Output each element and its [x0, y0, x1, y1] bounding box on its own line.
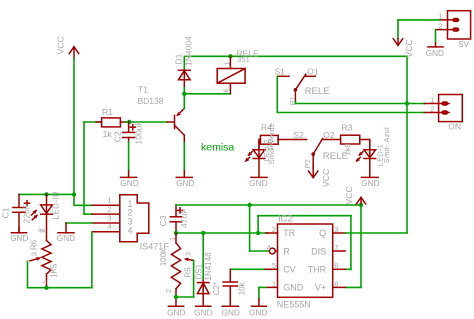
svg-text:GND: GND [249, 178, 267, 188]
svg-text:P2: P2 [303, 159, 312, 168]
svg-text:R3: R3 [342, 122, 353, 132]
svg-text:1: 1 [272, 279, 276, 288]
svg-text:GND: GND [221, 307, 239, 317]
svg-text:R6: R6 [29, 239, 38, 250]
svg-text:1: 1 [107, 196, 111, 205]
svg-text:GND: GND [361, 178, 379, 188]
svg-text:O1: O1 [307, 67, 319, 77]
svg-text:1: 1 [430, 95, 434, 104]
svg-text:GND: GND [283, 283, 304, 293]
svg-text:VCC: VCC [344, 186, 354, 204]
svg-text:1: 1 [41, 280, 50, 284]
svg-text:O2: O2 [323, 130, 335, 140]
svg-text:BD138: BD138 [138, 96, 164, 106]
svg-text:6: 6 [334, 261, 338, 270]
svg-text:5V: 5V [459, 39, 470, 49]
svg-text:ON: ON [448, 122, 461, 132]
svg-text:LED-IR: LED-IR [51, 191, 60, 220]
svg-text:5: 5 [272, 261, 276, 270]
svg-text:4: 4 [267, 243, 271, 252]
svg-text:GND: GND [426, 48, 444, 58]
svg-text:GND: GND [167, 307, 185, 317]
svg-text:VCC: VCC [404, 39, 414, 57]
svg-text:22uF: 22uF [21, 204, 31, 223]
svg-text:GND: GND [176, 178, 194, 188]
svg-text:1: 1 [168, 237, 177, 241]
svg-text:Smd- Verde: Smd- Verde [267, 123, 276, 165]
svg-text:GND: GND [57, 233, 75, 243]
svg-text:3: 3 [107, 213, 111, 222]
svg-text:V+: V+ [315, 283, 326, 293]
svg-text:D1: D1 [173, 53, 183, 64]
svg-text:GND: GND [120, 178, 138, 188]
svg-text:2: 2 [164, 289, 173, 293]
svg-text:100k: 100k [159, 248, 168, 266]
svg-text:TR: TR [283, 228, 295, 238]
svg-text:6: 6 [221, 88, 230, 92]
svg-text:2: 2 [107, 204, 111, 213]
svg-text:VCC: VCC [321, 169, 331, 187]
svg-text:2: 2 [37, 228, 46, 232]
svg-text:351: 351 [237, 55, 250, 64]
svg-text:4: 4 [107, 222, 111, 231]
svg-text:GND: GND [194, 307, 212, 317]
svg-text:IC2: IC2 [278, 213, 293, 224]
svg-text:DIS: DIS [311, 246, 326, 256]
svg-text:1N4148: 1N4148 [204, 252, 213, 281]
svg-text:C2*: C2* [212, 282, 221, 295]
svg-text:1k: 1k [103, 129, 113, 139]
svg-text:3: 3 [183, 252, 192, 256]
svg-text:10k: 10k [237, 281, 246, 295]
svg-text:1: 1 [222, 61, 231, 65]
svg-text:S1: S1 [275, 67, 286, 77]
svg-text:C1: C1 [1, 207, 11, 218]
svg-text:4: 4 [127, 225, 132, 235]
svg-text:7: 7 [334, 243, 338, 252]
svg-text:GND: GND [249, 307, 267, 317]
svg-text:3: 3 [334, 225, 338, 234]
svg-text:C3: C3 [158, 215, 168, 226]
svg-text:T1: T1 [138, 85, 148, 95]
svg-text:2: 2 [430, 104, 434, 113]
svg-text:GND: GND [10, 233, 28, 243]
svg-text:THR: THR [308, 265, 327, 275]
svg-text:Smd- Azul: Smd- Azul [382, 127, 391, 163]
svg-text:NE555N: NE555N [277, 299, 311, 309]
svg-text:C2: C2 [112, 131, 122, 142]
svg-text:kemisa: kemisa [201, 141, 234, 153]
svg-text:Q: Q [319, 228, 326, 238]
svg-text:8: 8 [334, 279, 338, 288]
svg-text:3: 3 [29, 252, 38, 256]
svg-text:100uF: 100uF [133, 120, 143, 144]
svg-text:1k8: 1k8 [343, 144, 352, 156]
svg-text:VCC: VCC [56, 36, 66, 54]
svg-text:R5: R5 [184, 267, 193, 278]
svg-text:R1: R1 [102, 107, 113, 117]
svg-text:1K5: 1K5 [49, 263, 58, 278]
svg-text:2: 2 [272, 225, 276, 234]
svg-text:R: R [283, 246, 290, 256]
svg-text:47uF: 47uF [179, 209, 189, 228]
svg-text:RELE: RELE [305, 86, 330, 97]
svg-text:DS1: DS1 [195, 263, 204, 279]
svg-text:S2: S2 [293, 130, 304, 140]
svg-text:CV: CV [283, 265, 296, 275]
svg-text:2: 2 [438, 21, 442, 30]
svg-text:1N4004: 1N4004 [184, 36, 194, 66]
